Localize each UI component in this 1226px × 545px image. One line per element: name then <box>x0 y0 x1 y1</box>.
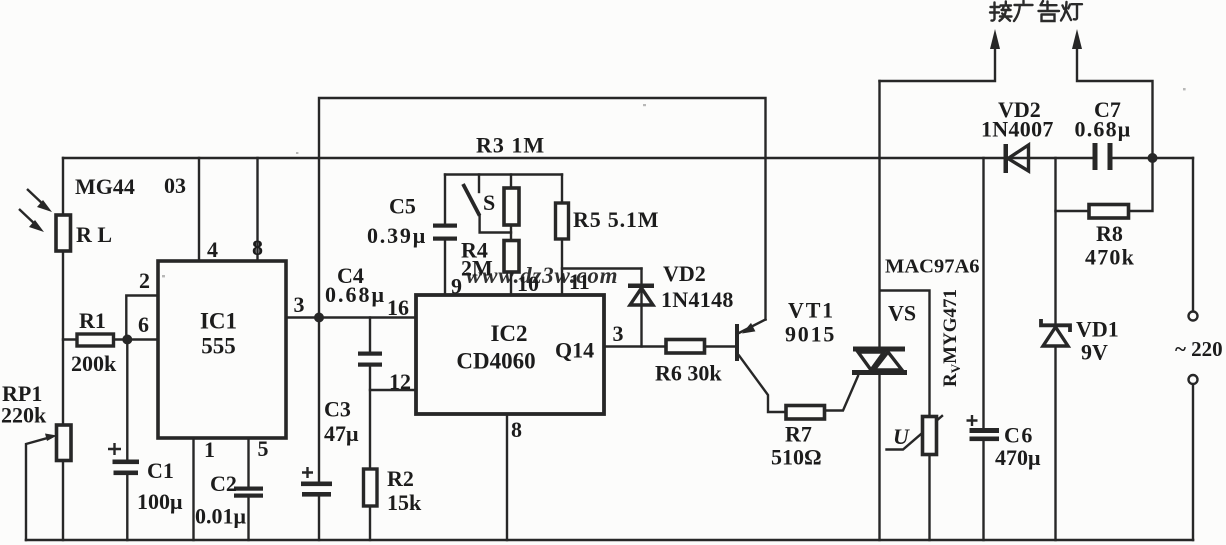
svg-text:S: S <box>483 190 495 215</box>
svg-text:U: U <box>893 424 910 449</box>
svg-text:R2: R2 <box>387 466 414 491</box>
svg-text:1: 1 <box>204 437 215 462</box>
svg-text:MG44: MG44 <box>75 174 135 199</box>
svg-text:0.39μ: 0.39μ <box>367 223 427 248</box>
svg-text:8: 8 <box>252 235 263 260</box>
svg-text:9V: 9V <box>1081 340 1108 365</box>
svg-text:R1: R1 <box>79 308 106 333</box>
svg-text:MAC97A6: MAC97A6 <box>885 256 980 278</box>
svg-text:IC1: IC1 <box>200 309 237 334</box>
svg-text:3: 3 <box>613 321 624 346</box>
svg-text:4: 4 <box>207 237 218 262</box>
svg-text:470μ: 470μ <box>995 445 1041 470</box>
svg-text:9: 9 <box>451 274 462 299</box>
svg-text:R3 1M: R3 1M <box>476 133 545 158</box>
svg-text:3: 3 <box>294 292 305 317</box>
svg-text:8: 8 <box>511 417 522 442</box>
svg-text:555: 555 <box>201 334 236 359</box>
svg-text:~ 220: ~ 220 <box>1175 337 1223 361</box>
svg-text:C6: C6 <box>1004 423 1034 448</box>
svg-text:2: 2 <box>139 268 150 293</box>
svg-text:C2: C2 <box>210 471 237 496</box>
svg-text:C3: C3 <box>324 397 351 422</box>
svg-text:470k: 470k <box>1085 245 1135 270</box>
svg-text:R6 30k: R6 30k <box>655 361 722 386</box>
svg-text:R5 5.1M: R5 5.1M <box>573 207 659 232</box>
svg-text:R7: R7 <box>785 422 812 447</box>
svg-text:VT1: VT1 <box>788 298 835 323</box>
svg-text:47μ: 47μ <box>324 421 359 446</box>
svg-text:CD4060: CD4060 <box>456 349 535 374</box>
svg-text:220k: 220k <box>1 403 47 428</box>
svg-text:VS: VS <box>888 301 916 326</box>
svg-text:Q14: Q14 <box>555 338 594 363</box>
svg-text:0.68μ: 0.68μ <box>325 282 386 307</box>
svg-text:12: 12 <box>389 369 411 394</box>
svg-text:510Ω: 510Ω <box>771 445 822 470</box>
svg-text:R L: R L <box>76 222 112 247</box>
svg-text:IC2: IC2 <box>490 321 527 346</box>
svg-text:200k: 200k <box>71 351 117 376</box>
svg-text:16: 16 <box>387 295 409 320</box>
svg-text:www.dz3w.com: www.dz3w.com <box>466 263 618 288</box>
svg-text:15k: 15k <box>387 490 422 515</box>
svg-text:0.68μ: 0.68μ <box>1075 117 1132 142</box>
svg-text:C5: C5 <box>389 194 416 219</box>
svg-text:6: 6 <box>138 312 149 337</box>
svg-text:C1: C1 <box>147 458 174 483</box>
svg-text:1N4007: 1N4007 <box>981 117 1054 142</box>
svg-text:03: 03 <box>164 173 186 198</box>
svg-text:100μ: 100μ <box>137 489 183 514</box>
svg-text:9015: 9015 <box>785 322 836 347</box>
svg-text:R8: R8 <box>1096 221 1123 246</box>
svg-text:1N4148: 1N4148 <box>661 287 734 312</box>
svg-text:5: 5 <box>258 436 269 461</box>
svg-text:0.01μ: 0.01μ <box>195 504 247 529</box>
svg-text:VD1: VD1 <box>1076 317 1119 342</box>
svg-text:VD2: VD2 <box>663 261 706 286</box>
